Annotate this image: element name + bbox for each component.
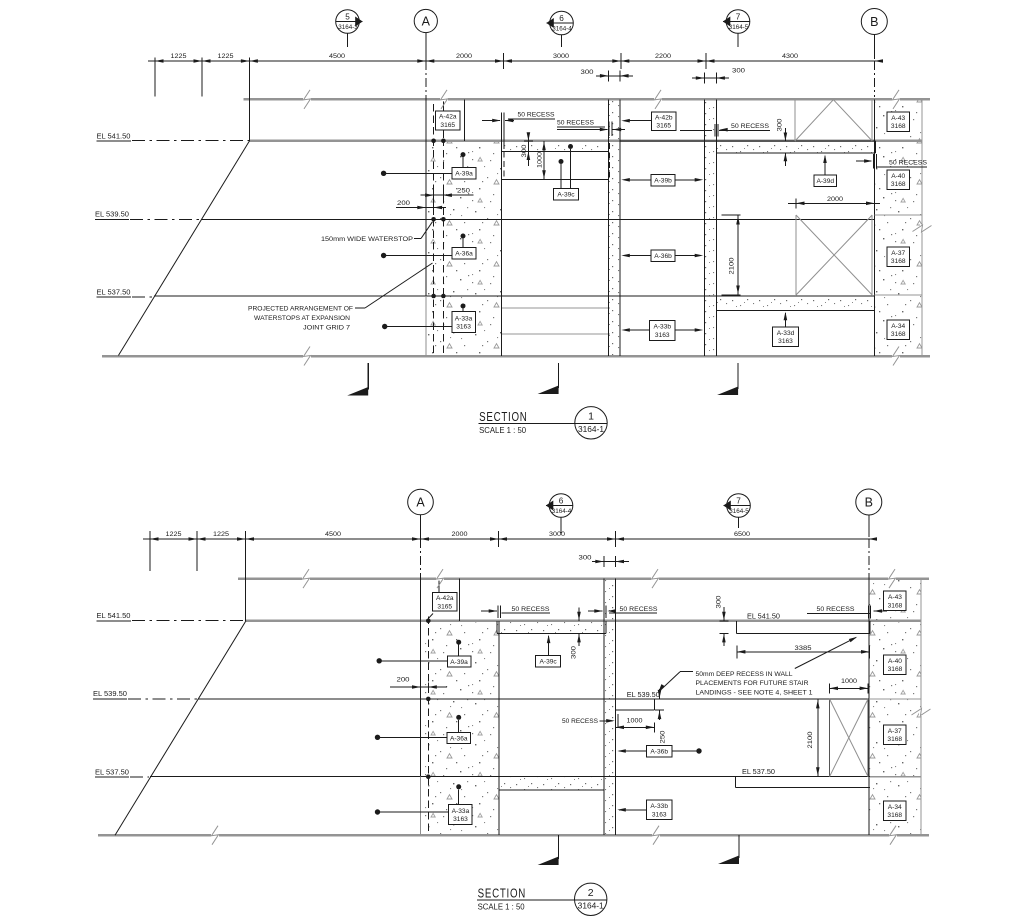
svg-text:A-39c: A-39c [557,192,575,199]
ref box A-36a [461,234,466,239]
svg-text:5: 5 [345,12,350,21]
svg-text:50 RECESS: 50 RECESS [817,606,855,613]
svg-text:3165: 3165 [440,122,455,129]
svg-text:2100: 2100 [729,257,736,274]
svg-text:A-33a: A-33a [455,315,473,322]
ref box A-36b [651,250,675,261]
svg-text:300: 300 [777,118,784,131]
svg-text:A-37: A-37 [888,728,902,735]
step band below EL 537.50 S2 [735,777,737,788]
break symbol wall B right edge [920,225,924,233]
svg-text:6: 6 [559,496,564,505]
grid line A upper segment [248,58,250,142]
wall grid B concrete texture [875,100,923,356]
wall grid A concrete texture [427,141,502,356]
embankment slope line S2 [115,621,246,835]
svg-text:3168: 3168 [887,736,902,743]
EL 541.50 black line from grid 6 to wall B [620,140,716,142]
break symbols bottom line S2 [211,833,219,837]
EL 541.50 gray line [249,140,921,143]
svg-text:A-39a: A-39a [450,659,468,666]
svg-text:3163: 3163 [778,338,793,345]
section cut flag 2 S2 [738,835,740,858]
svg-text:7: 7 [736,12,741,21]
svg-text:1: 1 [588,410,594,422]
grid bubble B [861,9,887,35]
break symbols top line [303,97,311,101]
svg-text:6: 6 [559,14,564,23]
svg-text:3168: 3168 [888,602,903,609]
grid bubble A [414,9,437,32]
svg-text:3164-1: 3164-1 [578,902,605,911]
svg-text:PROJECTED ARRANGEMENT OF: PROJECTED ARRANGEMENT OF [248,306,353,313]
slab outline bay S2 [497,632,606,634]
svg-text:A-42a: A-42a [439,114,457,121]
section cut flag 1 [367,363,369,390]
dimension ticks [425,53,427,69]
svg-text:A: A [416,496,425,510]
svg-text:A: A [422,15,431,29]
svg-text:4500: 4500 [329,53,345,60]
svg-text:A-36b: A-36b [650,749,668,756]
section cut flag 1 S2 [558,835,560,859]
section marker 7 S2 [727,494,751,518]
section marker 5 [336,10,360,34]
wall grid 6 concrete texture S2 [604,579,616,835]
svg-text:EL 541.50: EL 541.50 [747,613,780,620]
svg-text:200: 200 [397,677,410,684]
stair landing notch S2 [653,699,655,710]
ref box A-39b [651,175,675,186]
wall grid A concrete texture S2 [423,621,499,835]
wall B inner gray division lines [875,214,922,216]
wall B left edge (grid B) S2 [868,579,870,836]
svg-text:1225: 1225 [213,531,229,538]
svg-text:300: 300 [732,68,745,75]
section marker 6 S2 [549,494,573,518]
ref box A-33a/3163 [461,304,466,309]
svg-text:A-39d: A-39d [816,178,834,185]
section cut flag 3 [737,363,739,389]
ref box A-43/3168 S2 [884,591,907,611]
section marker 7 [726,10,750,34]
ref box A-39a [461,152,466,157]
ref box A-39c S2 [536,656,561,667]
dimension ticks S2 [420,531,422,547]
svg-text:2000: 2000 [456,53,472,60]
svg-text:A-40: A-40 [888,658,902,665]
svg-text:1225: 1225 [166,531,182,538]
main dimension line [148,60,880,62]
left extension ticks S2 [149,531,151,571]
EL 539.50 floor line S2 [198,698,869,700]
svg-text:EL 539.50: EL 539.50 [627,692,660,699]
svg-text:A-43: A-43 [891,115,905,122]
svg-text:SCALE 1 : 50: SCALE 1 : 50 [478,903,526,912]
svg-text:EL 541.50: EL 541.50 [97,134,131,141]
main dimension line S2 [143,538,874,540]
left extension ticks [154,58,156,97]
grid line segment S2 [245,531,247,621]
bottom slab band lower line bay S2 [499,789,604,791]
svg-text:3164-1: 3164-1 [578,425,605,434]
ref box A-43/3168 [887,112,910,132]
svg-text:A-42b: A-42b [655,114,673,121]
svg-text:50 RECESS: 50 RECESS [518,112,555,119]
svg-text:50 RECESS: 50 RECESS [620,606,658,613]
svg-text:2000: 2000 [827,196,843,203]
EL 537.50 floor line S2 [150,776,870,778]
ref box A-36b S2 [646,745,672,757]
svg-text:WATERSTOPS AT EXPANSION: WATERSTOPS AT EXPANSION [254,315,350,322]
svg-text:A-36a: A-36a [450,735,468,742]
svg-text:PLACEMENTS FOR FUTURE STAIR: PLACEMENTS FOR FUTURE STAIR [696,680,809,687]
ref box A-42b/3165 [652,112,677,131]
ref box A-34/3168 S2 [884,801,907,821]
svg-text:A-40: A-40 [891,173,905,180]
svg-text:300: 300 [579,555,592,562]
EL 539.50 floor line [201,218,875,220]
wall grid 6 concrete texture [608,100,620,356]
top of wall gray line [243,98,930,101]
svg-text:A-33b: A-33b [650,803,668,810]
svg-text:3168: 3168 [891,258,906,265]
svg-text:B: B [870,15,878,29]
waterstop junction dots S2 [426,619,431,624]
svg-text:SCALE 1 : 50: SCALE 1 : 50 [479,426,527,435]
EL 537.50 floor line [154,295,875,297]
far-side gray ledge lines in bay 1 [501,307,609,309]
upper stair gable (far side) [794,100,796,141]
wall grid 6 edges [607,99,609,356]
wall B inner gray divisions S2 [869,698,921,700]
bottom slab texture right of grid 7 [716,297,874,311]
section marker 6 [550,11,574,35]
wall A parapet right edge [464,99,466,141]
break symbols top line S2 [302,577,310,581]
svg-text:4500: 4500 [325,531,341,538]
svg-text:300: 300 [581,69,594,76]
stair X-box S2 [829,699,831,777]
waterstop junction dots [431,139,436,144]
recess shelf outline S2 [736,621,738,634]
wall A right edge S2 [498,621,500,835]
recess slab outline bay 1 [502,151,609,153]
slab band texture bay S2 [499,622,604,634]
svg-text:EL 537.50: EL 537.50 [742,769,775,776]
svg-text:SECTION: SECTION [479,409,527,424]
wall A left edge (grid A line) [425,97,427,296]
svg-text:EL 539.50: EL 539.50 [93,691,127,698]
svg-text:2000: 2000 [452,531,468,538]
ref box A-39a S2 [456,640,461,645]
svg-text:SECTION: SECTION [478,885,526,900]
svg-text:50 RECESS: 50 RECESS [512,606,550,613]
svg-text:300: 300 [716,595,723,608]
svg-text:2200: 2200 [655,53,671,60]
leader to shelf S2 [795,638,856,669]
svg-text:EL 537.50: EL 537.50 [97,290,131,297]
svg-text:3000: 3000 [549,531,565,538]
svg-text:A-36b: A-36b [654,253,672,260]
svg-text:3163: 3163 [655,332,670,339]
bottom gray ground line [102,355,930,358]
ref box A-33d/3163 [773,327,799,347]
svg-text:1000: 1000 [537,152,544,168]
svg-text:3168: 3168 [891,181,906,188]
ref box A-40/3168 S2 [884,655,907,675]
svg-text:JOINT GRID 7: JOINT GRID 7 [303,325,350,332]
svg-text:3163: 3163 [456,324,471,331]
svg-text:3385: 3385 [795,645,812,652]
bottom slab band texture bay S2 [499,777,604,790]
landing slab texture right of grid 7 [716,142,875,153]
svg-text:3168: 3168 [891,123,906,130]
wall A left edge S2 [420,579,422,777]
wall grid 6 edges S2 [603,579,605,836]
ref box A-39d [814,175,837,186]
break symbols bottom line [303,354,311,358]
svg-text:A-34: A-34 [888,804,902,811]
ref box A-34/3168 [887,320,910,340]
svg-text:A-39b: A-39b [654,178,672,185]
ref box A-39c with leader dots [568,144,573,149]
ref box A-37/3168 [887,247,910,267]
ref box A-33b/3163 S2 [646,800,672,820]
svg-text:A-36a: A-36a [455,250,473,257]
svg-text:3163: 3163 [652,811,667,818]
svg-text:A-42a: A-42a [436,595,454,602]
wall A right edge [501,141,503,356]
wall B right edge S2 [920,579,922,836]
embankment slope line [118,141,249,356]
svg-text:EL 539.50: EL 539.50 [95,212,129,219]
svg-text:A-33b: A-33b [653,324,671,331]
EL 541.50 gray line S2 [246,620,921,623]
svg-text:EL 541.50: EL 541.50 [97,613,131,620]
svg-text:B: B [865,496,873,510]
svg-text:A-34: A-34 [891,323,905,330]
svg-text:3163: 3163 [453,816,468,823]
svg-text:3165: 3165 [437,603,452,610]
svg-text:A-43: A-43 [888,594,902,601]
wall grid B concrete texture S2 [869,579,921,835]
wall A parapet right edge S2 [458,579,460,621]
break symbol wall B right edge S2 [919,708,923,716]
svg-text:3165: 3165 [656,123,671,130]
svg-text:1000: 1000 [841,678,857,685]
svg-text:2100: 2100 [807,731,814,748]
svg-text:50 RECESS: 50 RECESS [562,718,598,725]
svg-text:3000: 3000 [553,53,569,60]
svg-text:3164-4: 3164-4 [552,508,572,515]
svg-text:LANDINGS - SEE NOTE 4, SHEET: LANDINGS - SEE NOTE 4, SHEET 1 [696,690,813,697]
bottom gray ground line S2 [98,834,929,837]
svg-text:1225: 1225 [218,53,234,60]
wall grid 7 concrete texture [704,100,716,356]
wall grid 7 edges [703,99,705,356]
svg-text:A-33d: A-33d [777,330,795,337]
waterstop dashed line S2 [427,617,429,835]
svg-text:250: 250 [457,188,470,195]
svg-text:50 RECESS: 50 RECESS [731,123,769,130]
svg-text:A-39c: A-39c [539,659,557,666]
section cut flag 2 [558,363,560,388]
waterstop dashed line 2 [442,104,444,355]
ref box A-37/3168 S2 [884,725,907,745]
dimension arrows S2 [150,537,159,541]
svg-text:6500: 6500 [734,531,750,538]
dimension arrows [155,59,164,63]
ref box A-33b/3163 [650,321,676,341]
svg-text:1225: 1225 [171,53,187,60]
bottom slab outline right of grid 7 [716,310,874,312]
svg-text:3164-5: 3164-5 [729,24,749,31]
lower stair X-box (far side) [795,215,797,295]
svg-text:3168: 3168 [887,812,902,819]
ref box A-33a/3163 S2 [456,784,461,789]
wall B left edge (grid B) [874,99,876,356]
svg-text:300: 300 [521,144,528,157]
svg-text:3164-4: 3164-4 [552,26,572,33]
svg-text:A-37: A-37 [891,250,905,257]
grid bubble A S2 [408,489,434,515]
svg-text:150mm WIDE WATERSTOP: 150mm WIDE WATERSTOP [321,236,413,243]
svg-text:250: 250 [660,730,667,743]
svg-text:3164-3: 3164-3 [338,24,358,31]
svg-text:EL 537.50: EL 537.50 [95,770,129,777]
ref box A-40/3168 [887,170,910,190]
thin slab band between walls bay 1 [502,142,611,152]
ref box A-42a/3165 [442,99,444,111]
ref box A-42a/3165 S2 [438,579,440,593]
svg-text:200: 200 [397,200,410,207]
waterstop dashed line 1 [433,104,435,355]
landing slab outline right of grid 7 [716,140,875,142]
svg-text:50 RECESS: 50 RECESS [889,160,927,167]
svg-text:3168: 3168 [891,331,906,338]
wall B right edge [921,99,923,356]
svg-text:50mm DEEP RECESS IN WALL: 50mm DEEP RECESS IN WALL [696,671,793,678]
svg-text:4300: 4300 [782,53,798,60]
svg-text:A-39a: A-39a [455,170,473,177]
svg-text:3168: 3168 [888,666,903,673]
svg-text:7: 7 [736,496,741,505]
grid bubble B S2 [856,489,882,515]
ref box A-36a S2 [456,715,461,720]
svg-text:50 RECESS: 50 RECESS [557,120,594,127]
svg-text:1000: 1000 [627,718,643,725]
svg-text:A-33a: A-33a [452,808,470,815]
svg-text:300: 300 [571,646,578,659]
svg-text:3164-5: 3164-5 [729,508,749,515]
top of wall gray line S2 [238,577,929,580]
svg-text:2: 2 [588,887,594,899]
